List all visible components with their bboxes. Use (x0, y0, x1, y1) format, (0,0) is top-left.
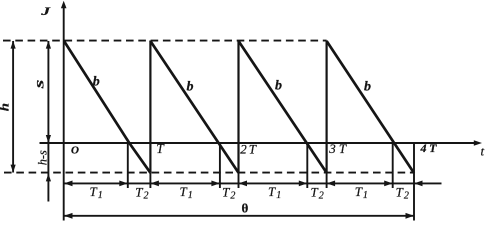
sawtooth fall segment 4 (327, 41, 414, 173)
svg-text:T1: T1 (180, 184, 193, 201)
extension line at 4T end (413, 143, 415, 221)
sawtooth fall segment 2 (150, 41, 238, 173)
s and h-s dimension line (47, 41, 49, 202)
theta dimension line (64, 215, 414, 217)
vertical axis J (63, 7, 65, 221)
svg-text:h-s: h-s (35, 150, 49, 165)
sawtooth fall segment 3 (239, 41, 327, 173)
svg-text:b: b (93, 75, 100, 90)
T2-4 left outside arrowhead (384, 181, 393, 187)
sawtooth rise segment 4 (326, 41, 328, 173)
horizontal axis t (40, 142, 476, 144)
top dashed level line (3, 40, 327, 42)
svg-text:T2: T2 (396, 185, 409, 202)
svg-text:h: h (0, 103, 11, 111)
sawtooth fall segment 1 (64, 41, 150, 173)
h dimension bottom arrowhead (11, 165, 16, 173)
sawtooth rise segment 3 (237, 41, 239, 173)
extension line at axis crossing 4 (392, 143, 394, 188)
h dimension top arrowhead (11, 41, 16, 49)
svg-text:T1: T1 (90, 184, 103, 201)
extension line at axis crossing 3 (306, 143, 308, 188)
sawtooth rise segment 2 (149, 41, 151, 173)
s dimension top arrowhead (46, 41, 51, 49)
svg-text:b: b (364, 80, 371, 95)
svg-text:t: t (481, 144, 485, 159)
svg-text:3T: 3T (328, 141, 349, 156)
T2-1 right outside arrowhead (150, 181, 159, 187)
extension line below rise 3 (238, 173, 240, 188)
svg-text:T1: T1 (268, 184, 281, 201)
svg-text:T2: T2 (311, 185, 324, 202)
T2-3 right outside arrowhead (327, 181, 336, 187)
h dimension line (12, 41, 14, 173)
T2-4 right outside arrowhead (414, 181, 423, 187)
extension line below rise 2 (149, 173, 151, 188)
svg-text:2T: 2T (240, 141, 258, 156)
T2-2 right outside arrowhead (239, 181, 248, 187)
svg-text:J: J (40, 6, 52, 18)
extension line at axis crossing 1 (127, 143, 129, 188)
s dimension bottom arrowhead (46, 135, 51, 143)
theta right arrowhead (406, 213, 415, 219)
svg-text:4T: 4T (420, 141, 440, 155)
h-s dimension bottom arrowhead (46, 173, 51, 181)
T2-1 left outside arrowhead (119, 181, 128, 187)
svg-text:b: b (187, 80, 194, 95)
theta left arrowhead (64, 213, 73, 219)
svg-text:O: O (71, 145, 79, 157)
bottom dashed level line (4, 172, 414, 174)
svg-text:s: s (33, 79, 48, 90)
horizontal axis arrowhead (474, 140, 482, 145)
T1 T2 dimension line (64, 182, 442, 184)
svg-text:T2: T2 (135, 185, 148, 202)
T2-2 left outside arrowhead (211, 181, 220, 187)
svg-text:T2: T2 (222, 185, 235, 202)
svg-text:θ: θ (242, 201, 249, 216)
svg-text:b: b (275, 79, 282, 94)
svg-text:T1: T1 (355, 184, 368, 201)
T1-1 left arrowhead (64, 181, 73, 187)
extension line below rise 4 (326, 173, 328, 188)
vertical axis arrowhead (61, 1, 67, 8)
extension line at axis crossing 2 (219, 143, 221, 188)
T2-3 left outside arrowhead (299, 181, 308, 187)
